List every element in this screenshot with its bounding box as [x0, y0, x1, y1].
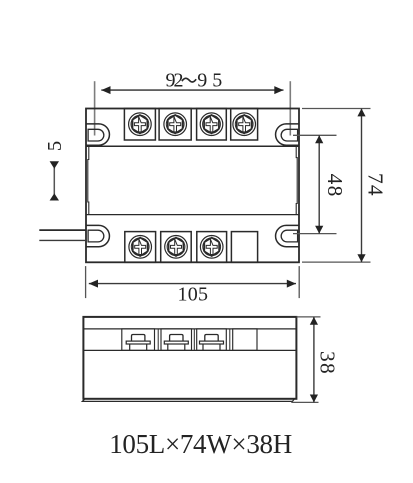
- dim 92~95 line: [101, 89, 283, 91]
- screw A3 top row: [200, 113, 223, 136]
- dim 38 line: [313, 317, 315, 403]
- svg-text:5: 5: [44, 141, 66, 151]
- screw A2 top row: [164, 113, 187, 136]
- svg-text:105L×74W×38H: 105L×74W×38H: [109, 429, 292, 459]
- extension line right of dim 105: [298, 266, 300, 298]
- extension line left of dim 92~95: [94, 81, 96, 135]
- side screw 3: [200, 335, 224, 351]
- dim 38 arrow top: [310, 317, 318, 325]
- terminal block 1 top row: [124, 109, 155, 141]
- side cell divider 3: [229, 329, 231, 351]
- dim 48 arrow top: [315, 135, 323, 143]
- side view lid line: [83, 328, 296, 330]
- side cell divider 1: [157, 329, 159, 351]
- svg-text:105: 105: [178, 284, 209, 306]
- mounting ear top-left outer: [86, 124, 109, 145]
- bottom terminal strip top line: [86, 214, 299, 216]
- mounting ear top-right outer: [276, 124, 299, 145]
- mounting ear bottom-left slot: [88, 230, 104, 242]
- dim 105 arrow right: [287, 280, 296, 288]
- extension line left of dim 105: [85, 266, 87, 298]
- side screw 1: [126, 335, 150, 351]
- mounting ear bottom-right slot: [281, 230, 297, 242]
- svg-text:74: 74: [364, 173, 388, 197]
- middle section inner contour left: [88, 146, 89, 214]
- extension line top of dim 48: [293, 134, 337, 136]
- terminal block 2 top row: [159, 109, 191, 141]
- top terminal strip bottom line: [86, 145, 299, 147]
- terminal block 3 top row: [197, 109, 227, 141]
- dim 105 line: [89, 283, 296, 285]
- side cell 1: [122, 329, 155, 351]
- dim 5 arrow: [53, 164, 55, 198]
- terminal block 2 bottom row: [161, 232, 192, 263]
- mounting ear top-right slot: [281, 129, 297, 141]
- side base plate: [82, 399, 294, 402]
- dim 74 line: [361, 109, 363, 263]
- top view body outline: [86, 109, 299, 263]
- svg-text:38: 38: [316, 351, 340, 375]
- extension line top of dim 74: [302, 108, 371, 110]
- extension line bottom of dim 48: [293, 233, 337, 235]
- side cell divider 2: [193, 329, 195, 351]
- dim 92~95 arrow right: [274, 86, 283, 94]
- side view body outline: [83, 317, 296, 399]
- mounting ear bottom-left outer: [86, 225, 109, 246]
- wire lead upper: [39, 229, 86, 231]
- terminal block 4 top row: [231, 109, 258, 141]
- wire lead lower: [39, 239, 86, 241]
- mounting ear top-left slot: [88, 129, 104, 141]
- extension line bottom of dim 38: [291, 401, 318, 403]
- screw A4 top row: [233, 113, 256, 136]
- middle section inner contour right: [296, 146, 297, 214]
- svg-text:95: 95: [197, 69, 222, 91]
- dim 74 arrow top: [357, 109, 365, 117]
- screw B1 bottom row: [129, 236, 152, 259]
- extension line right of dim 92~95: [289, 81, 291, 135]
- side cell 3: [197, 329, 227, 351]
- dim 48 arrow bottom: [315, 226, 323, 234]
- dim 74 arrow bottom: [357, 254, 365, 262]
- dim 48 line: [318, 135, 320, 233]
- side blank cell: [233, 329, 257, 351]
- dim 38 arrow bottom: [310, 395, 318, 403]
- screw B2 bottom row: [165, 236, 188, 259]
- side cell 2: [161, 329, 192, 351]
- side view terminal shelf line: [83, 349, 296, 351]
- extension line top of dim 38: [296, 316, 320, 318]
- dim 105 arrow left: [89, 280, 98, 288]
- blank block bottom row: [231, 232, 257, 263]
- terminal block 3 bottom row: [197, 232, 227, 263]
- terminal block 1 bottom row: [125, 232, 156, 263]
- mounting ear bottom-right outer: [276, 225, 299, 246]
- screw A1 top row: [129, 113, 152, 136]
- tilde wave of 92~95: [182, 78, 196, 82]
- svg-text:92: 92: [166, 69, 184, 91]
- extension line bottom of dim 74: [302, 261, 371, 263]
- screw B3 bottom row: [200, 236, 223, 259]
- side screw 2: [164, 335, 188, 351]
- svg-text:48: 48: [323, 174, 347, 198]
- dim 92~95 arrow left: [101, 86, 110, 94]
